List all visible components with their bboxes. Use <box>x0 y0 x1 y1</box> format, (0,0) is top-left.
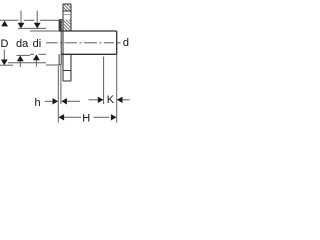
svg-text:d: d <box>123 37 129 49</box>
svg-text:K: K <box>107 94 115 106</box>
svg-text:D: D <box>1 38 9 50</box>
svg-text:H: H <box>82 112 90 124</box>
svg-text:da: da <box>16 38 29 50</box>
svg-text:h: h <box>35 97 41 109</box>
svg-text:di: di <box>33 38 42 50</box>
